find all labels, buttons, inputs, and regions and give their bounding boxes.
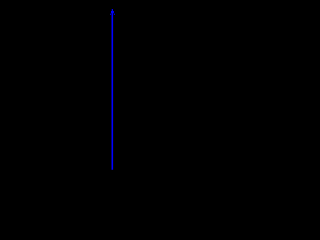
arrowhead (110, 9, 115, 15)
wire (111, 12, 113, 170)
